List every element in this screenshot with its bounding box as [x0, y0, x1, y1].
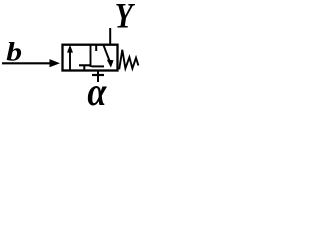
port a closed crossbar [92, 74, 104, 76]
left cell flow path wire [69, 47, 71, 71]
left cell blocked port T stem [83, 65, 85, 70]
svg-text:Y: Y [115, 0, 136, 36]
right cell blocked port bar [92, 65, 105, 67]
svg-text:α: α [87, 71, 107, 115]
pilot signal wire from b [2, 62, 51, 64]
return spring [119, 50, 138, 70]
left cell blocked port T bar [79, 64, 90, 66]
left cell flow arrowhead up [67, 45, 73, 53]
right cell top port stub [95, 45, 97, 51]
right cell diagonal arrowhead down [107, 60, 114, 68]
pilot drain wire to Y [109, 28, 111, 45]
pilot arrowhead into valve [50, 59, 61, 67]
port a wire below box [97, 71, 99, 83]
right cell diagonal flow wire [104, 46, 110, 62]
valve body box [63, 45, 118, 71]
cell divider [90, 45, 92, 67]
